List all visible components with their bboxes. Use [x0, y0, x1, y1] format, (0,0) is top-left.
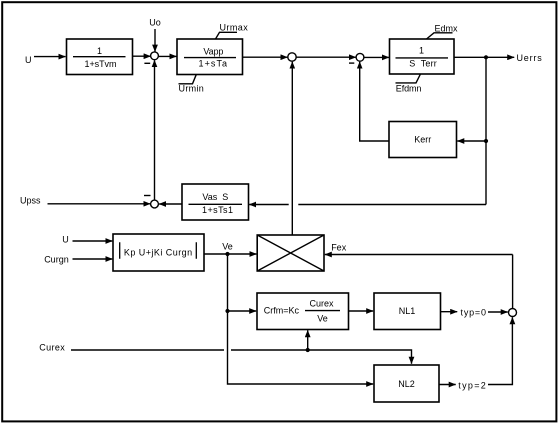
summing junction S1	[151, 52, 159, 60]
svg-text:Ve: Ve	[222, 242, 233, 252]
summing junction S2	[288, 53, 296, 61]
junction dot at Kerr tap	[484, 139, 488, 143]
wire typ junction riser	[512, 255, 514, 309]
svg-text:Curgn: Curgn	[44, 254, 69, 264]
wire Tvm block to summer S1	[133, 55, 151, 57]
block 1/(1+sTvm)	[67, 39, 133, 75]
wire U to Tvm block	[34, 56, 66, 58]
svg-text:Uerrs: Uerrs	[517, 53, 543, 63]
block 1/(S Terr)	[390, 39, 455, 74]
svg-text:Vapp: Vapp	[203, 46, 223, 56]
svg-text:1+sTa: 1+sTa	[199, 58, 228, 68]
svg-text:Vas S: Vas S	[202, 192, 228, 202]
svg-text:typ=0: typ=0	[461, 308, 487, 318]
junction dot Curex to Crfm	[306, 348, 310, 352]
svg-text:1+sTvm: 1+sTvm	[85, 59, 117, 69]
wire Ta block to summer S2	[243, 56, 288, 58]
block Crfm=Kc Curex/Ve	[257, 293, 349, 330]
svg-text:Upss: Upss	[20, 196, 41, 206]
typ selector junction	[509, 309, 517, 317]
block NL1	[374, 293, 441, 330]
wire NL1 to typ=0 label	[441, 311, 458, 313]
wire Curex left segment	[71, 349, 224, 351]
svg-text:S Terr: S Terr	[409, 58, 437, 68]
wire Curex right segment to NL2 top	[231, 350, 412, 364]
label Edmx	[427, 24, 459, 40]
wire Kp block to multiplier	[204, 253, 256, 255]
wire summer S3 to Terr block	[364, 56, 389, 58]
block NL2	[374, 365, 439, 402]
svg-text:U: U	[25, 55, 32, 65]
svg-text:1+sTs1: 1+sTs1	[202, 205, 233, 215]
wire output node down to feedback corner	[485, 57, 487, 204]
svg-text:Crfm=Kc: Crfm=Kc	[264, 306, 300, 316]
wire Vas block to summer S4	[159, 203, 182, 205]
svg-text:U: U	[62, 235, 68, 245]
wire U to Kp block	[73, 240, 113, 242]
svg-text:NL1: NL1	[399, 306, 416, 316]
wire summer S4 up to summer S1	[154, 60, 156, 200]
wire Terr block to Uerrs output	[454, 56, 514, 58]
svg-text:NL2: NL2	[398, 379, 415, 389]
junction dot at output node	[484, 55, 488, 59]
wire NL2 to typ=2 label	[439, 384, 456, 386]
svg-text:1: 1	[419, 46, 424, 56]
label Urmin	[179, 75, 204, 94]
wire Ve branch to Crfm block	[228, 310, 257, 312]
wire tap to Kerr block	[457, 140, 486, 142]
svg-text:Urmin: Urmin	[179, 84, 204, 94]
block Kerr	[389, 122, 457, 158]
svg-text:Uo: Uo	[149, 18, 161, 28]
wire Crfm block to NL1	[349, 310, 374, 312]
wire Upss to summer S4	[48, 203, 151, 205]
svg-text:Curex: Curex	[309, 299, 334, 309]
svg-text:Urmax: Urmax	[220, 23, 249, 33]
minus sign at summer S3	[349, 62, 354, 64]
svg-text:Edmx: Edmx	[435, 24, 459, 34]
minus sign at summer S4	[144, 195, 151, 197]
wire Fex from typ junction to multiplier	[325, 254, 513, 256]
svg-text:Efdmn: Efdmn	[396, 84, 422, 94]
wire Ve down branch	[228, 254, 374, 384]
svg-text:1: 1	[97, 46, 102, 56]
wire Uo to summer S1	[154, 29, 156, 52]
block Vapp/(1+sTa)	[177, 39, 243, 75]
block Vas S/(1+sTs1)	[182, 184, 249, 220]
summing junction S4	[151, 200, 159, 208]
junction dot Ve branch to Crfm	[225, 309, 229, 313]
wire summer S1 to Ta block	[159, 55, 177, 57]
svg-text:Kp U+jKi Curgn: Kp U+jKi Curgn	[124, 248, 192, 258]
label Efdmn	[396, 74, 422, 93]
wire Curgn to Kp block	[73, 258, 113, 260]
wire feedback corner to crossing	[298, 204, 486, 206]
block |Kp U+jKi Curgn|	[113, 234, 204, 271]
summing junction S3	[356, 53, 364, 61]
wire multiplier to summer S2	[291, 62, 293, 235]
svg-text:Curex: Curex	[39, 342, 65, 352]
junction dot Ve	[225, 252, 229, 256]
wire crossing to Vas block	[249, 204, 289, 206]
wire typ=2 to typ junction	[488, 317, 512, 384]
svg-text:Kerr: Kerr	[414, 135, 431, 145]
svg-text:Fex: Fex	[331, 242, 347, 252]
wire Kerr block to summer S3	[360, 62, 389, 141]
svg-text:Ve: Ve	[317, 313, 328, 323]
wire summer S2 to summer S3	[296, 56, 356, 58]
svg-text:typ=2: typ=2	[458, 381, 486, 391]
wire Curex up into Crfm bottom	[307, 330, 309, 350]
minus sign at summer S1	[144, 62, 150, 64]
wire typ=0 to typ junction	[488, 311, 508, 313]
multiplier block	[257, 235, 324, 271]
label Urmax	[216, 23, 249, 40]
